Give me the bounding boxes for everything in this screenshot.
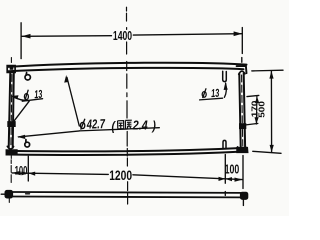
component corner fitting bottom-right inner curve (238, 147, 246, 149)
label phi42.7 underline (80, 128, 160, 131)
node right column centerline / extension (241, 28, 243, 54)
svg-text:100: 100 (225, 163, 240, 177)
label opening paren (112, 120, 117, 134)
component corner fitting top-right inner arch (239, 71, 245, 74)
wire right column outer line (244, 74, 245, 147)
svg-text:13: 13 (211, 87, 220, 101)
component hanger loop bottom-right (223, 140, 226, 148)
component hanger ring top-left (25, 73, 30, 80)
dimension 500 bottom arrowhead (270, 145, 274, 153)
svg-text:(: ( (112, 120, 117, 134)
label kanji glyph 2 (thickness) (125, 120, 132, 129)
svg-text:): ) (151, 119, 156, 133)
dimension 1400 line left part (22, 35, 112, 38)
wire top rail lower edge (8, 68, 244, 71)
node right column inner centerline (242, 75, 243, 146)
dimension 500 line (270, 71, 272, 153)
wire right column inner line (239, 74, 240, 147)
component corner fitting bottom-left band (6, 150, 17, 155)
component corner fitting bottom-left inner curve (7, 146, 13, 149)
component hanger loop top-right (223, 71, 227, 81)
label phi13 left text (24, 90, 28, 101)
label 100 left (15, 165, 28, 178)
dimension 500 bottom extension line (253, 151, 281, 153)
component sleeve joint on left column (8, 122, 15, 127)
node bar centerline left dash (1, 193, 4, 195)
node bar hole centerline dash left (26, 193, 30, 195)
label 1200 (109, 168, 132, 184)
component corner fitting top-left box (7, 66, 15, 73)
wire left column inner line (13, 72, 14, 148)
dimension bottom extension at x=225 (224, 155, 226, 184)
component corner fitting top-right cap (237, 66, 247, 73)
node main vertical centerline (127, 7, 128, 204)
dimension bottom line 100/1200/100 (12, 173, 108, 175)
dimension 170 top arrowhead (255, 96, 259, 103)
dimension 170 upper extension tick (247, 95, 259, 96)
node left column inner centerline (11, 75, 12, 147)
svg-text:2.4: 2.4 (132, 119, 148, 133)
dimension 1400 line right part (133, 34, 242, 35)
dimension bottom left arrowhead at x=12 (12, 171, 21, 175)
svg-text:500: 500 (257, 101, 266, 118)
dimension 1400 right arrowhead (234, 31, 243, 36)
label phi13 left underline (22, 99, 42, 102)
label 2.4 (132, 119, 148, 133)
svg-text:100: 100 (15, 165, 28, 178)
svg-text:1400: 1400 (113, 29, 132, 43)
dimension bottom right arrowhead at x=242.6 (235, 178, 243, 182)
dimension 170 line (255, 96, 258, 124)
dimension 1400 left arrowhead (22, 34, 31, 39)
label 500 rotated (257, 101, 266, 118)
wire bottom rail upper edge (8, 148, 247, 152)
svg-text:13: 13 (34, 88, 43, 102)
label phi42.7 text (80, 119, 85, 130)
wire top rail upper edge (8, 63, 247, 67)
component side-view bar left end cap (5, 190, 13, 198)
dimension arrowheads pair at x=28 (22, 171, 29, 175)
dimension 170 bottom extension tick (245, 123, 258, 125)
component side-view bar right end cap (240, 192, 247, 199)
dimension bottom extension at x=243 (242, 156, 244, 189)
leader phi13 right to loop (224, 83, 226, 97)
label closing paren (151, 119, 156, 133)
component hanger ring bottom-left (25, 140, 30, 147)
leader phi13 left second line to sleeve (14, 101, 29, 121)
leader phi42.7 up arrow to top rail (67, 78, 79, 127)
dimension 170 bottom arrowhead (255, 117, 259, 124)
label phi13 right underline (200, 98, 223, 100)
label 1400 (113, 29, 132, 43)
label phi13 right text (202, 88, 206, 98)
component sleeve joint on right column (240, 124, 246, 129)
dimension 170/500 top extension line (252, 69, 283, 72)
wire left column outer line (9, 72, 11, 148)
component corner fitting bottom-right band (237, 148, 248, 153)
dimension 500 top arrowhead (269, 71, 273, 79)
node bar hole centerline dash right (224, 192, 226, 196)
svg-text:42.7: 42.7 (86, 118, 106, 132)
wire bottom rail lower edge (8, 151, 247, 155)
dimension arrowheads pair at x=225 (219, 177, 226, 181)
node right column centerline lower dash (242, 200, 244, 206)
svg-text:1200: 1200 (109, 168, 132, 184)
label 100 right (225, 163, 240, 177)
leader phi13 left arrow to column (13, 97, 29, 101)
component side-view bar bottom edge (13, 196, 241, 199)
leader phi42.7 left arrow to bottom corner (19, 131, 80, 137)
label 170 rotated (250, 101, 259, 118)
dimension bottom extension at x=28 (27, 156, 29, 181)
component side-view bar top edge (1, 190, 248, 199)
dimension 1400 left extension line (20, 23, 22, 59)
label kanji glyph 1 (wall) (118, 121, 124, 129)
node left column centerline (9, 58, 11, 203)
